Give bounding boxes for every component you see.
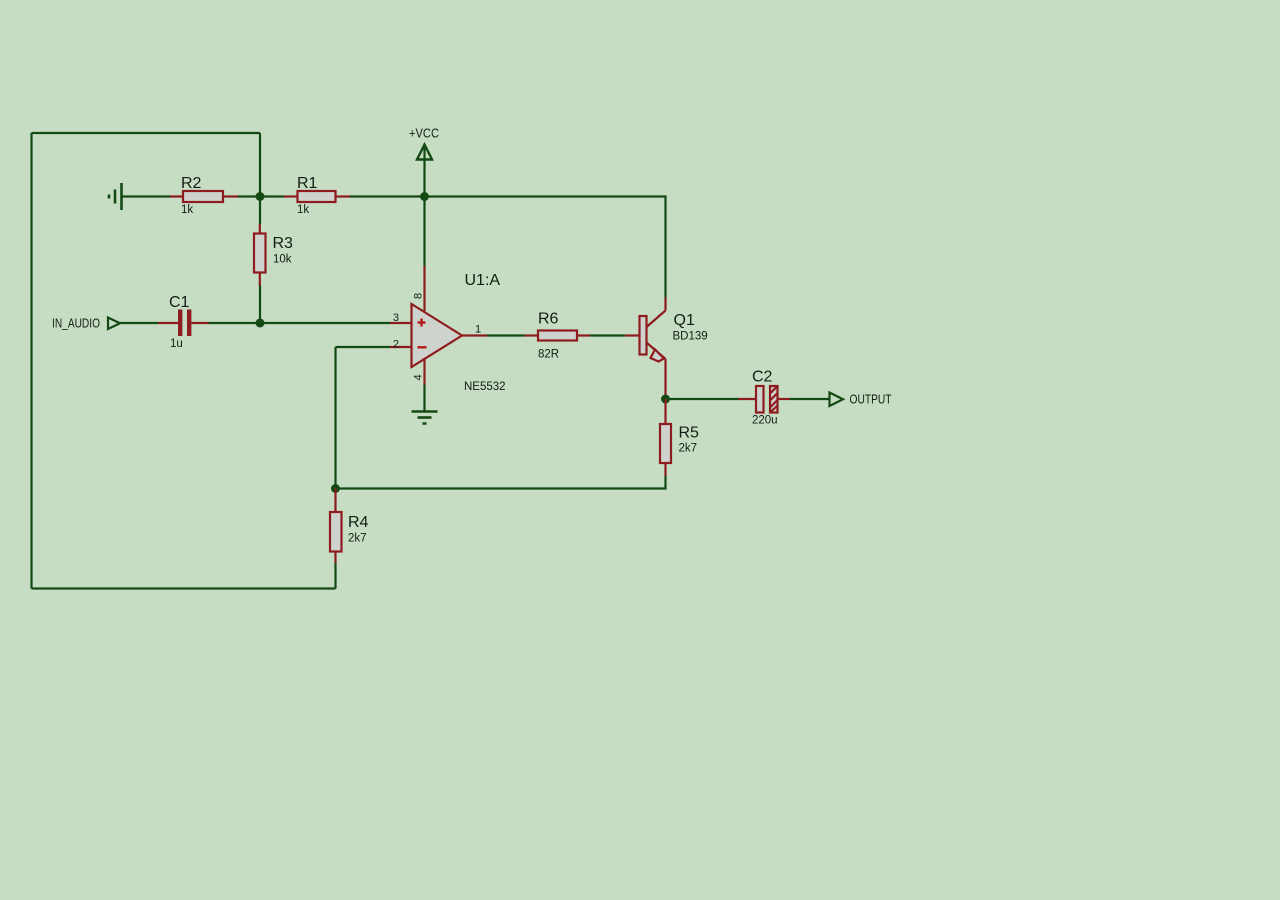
- ground GND1 (rotated left): [109, 183, 122, 210]
- svg-text:4: 4: [413, 374, 425, 380]
- node C junction dot: [256, 319, 265, 328]
- svg-text:1k: 1k: [181, 204, 193, 216]
- svg-text:R2: R2: [181, 175, 202, 192]
- wire node B to collector corner: [425, 197, 666, 298]
- capacitor C1: [158, 294, 209, 350]
- svg-text:R5: R5: [679, 425, 700, 442]
- svg-text:2k7: 2k7: [679, 443, 698, 455]
- svg-text:1u: 1u: [170, 338, 183, 350]
- wire R1 to node B: [350, 195, 425, 197]
- wire GND1 to R2: [123, 195, 171, 197]
- wire R2 to node A: [238, 195, 260, 197]
- wire left vertical loop: [30, 133, 32, 589]
- svg-text:R6: R6: [538, 311, 559, 328]
- node E junction dot (feedback/R4): [331, 484, 340, 493]
- svg-text:2k7: 2k7: [348, 533, 367, 545]
- svg-text:R4: R4: [348, 514, 369, 531]
- svg-text:2: 2: [393, 339, 399, 351]
- wire node C to op-amp pin 3: [260, 322, 390, 324]
- op-amp U1:A: [390, 266, 506, 393]
- svg-text:C2: C2: [752, 369, 773, 386]
- resistor R5: [660, 399, 699, 476]
- svg-text:1: 1: [475, 324, 481, 336]
- capacitor C2: [738, 369, 790, 427]
- wire top horizontal loop: [32, 132, 261, 134]
- power +VCC: [409, 126, 439, 160]
- svg-text:220u: 220u: [752, 415, 778, 427]
- svg-text:R3: R3: [273, 235, 294, 252]
- wire feedback vertical: [334, 347, 336, 489]
- svg-text:+VCC: +VCC: [409, 126, 439, 141]
- wire C1 to node C: [209, 322, 261, 324]
- svg-text:OUTPUT: OUTPUT: [850, 393, 892, 407]
- wire R4 bottom to loop: [334, 563, 336, 589]
- wire drop from top loop to node A: [259, 133, 261, 197]
- svg-text:8: 8: [413, 293, 425, 299]
- node A junction dot: [256, 192, 265, 201]
- resistor R3: [254, 224, 293, 286]
- wire bottom horizontal loop: [32, 587, 336, 589]
- svg-text:C1: C1: [169, 294, 190, 311]
- wire node B to pin 8: [423, 197, 425, 267]
- node D junction dot (emitter): [661, 395, 670, 404]
- resistor R4: [330, 489, 369, 564]
- terminal OUTPUT: [830, 393, 892, 407]
- wire op-amp output to R6: [487, 334, 525, 336]
- wire R5 bottom to feedback: [336, 476, 666, 489]
- wire C2 to OUTPUT terminal: [790, 398, 830, 400]
- wire node A to R1: [260, 195, 284, 197]
- transistor Q1: [625, 298, 708, 400]
- wire R3 bottom to node C: [259, 286, 261, 324]
- wire node A to R3 top: [259, 197, 261, 225]
- svg-text:Q1: Q1: [674, 312, 695, 329]
- svg-text:BD139: BD139: [673, 331, 708, 343]
- svg-text:82R: 82R: [538, 349, 559, 361]
- wire node D to C2: [666, 398, 739, 400]
- svg-text:10k: 10k: [273, 254, 292, 266]
- svg-text:IN_AUDIO: IN_AUDIO: [52, 317, 100, 331]
- wire IN_AUDIO to C1: [120, 322, 158, 324]
- svg-text:NE5532: NE5532: [464, 381, 506, 393]
- svg-text:U1:A: U1:A: [465, 272, 501, 289]
- terminal IN_AUDIO: [52, 317, 120, 331]
- svg-text:3: 3: [393, 312, 399, 324]
- node B junction dot: [420, 192, 429, 201]
- resistor R1: [284, 175, 350, 216]
- wire pin 4 to ground: [423, 385, 425, 412]
- svg-text:1k: 1k: [297, 204, 309, 216]
- wire +VCC to node B: [423, 160, 425, 197]
- resistor R2: [170, 175, 238, 216]
- wire R6 to Q1 base: [590, 334, 625, 336]
- wire feedback to op-amp pin 2: [336, 346, 391, 348]
- ground GND2 under op-amp: [412, 412, 438, 424]
- resistor R6: [525, 311, 591, 361]
- svg-text:R1: R1: [297, 175, 318, 192]
